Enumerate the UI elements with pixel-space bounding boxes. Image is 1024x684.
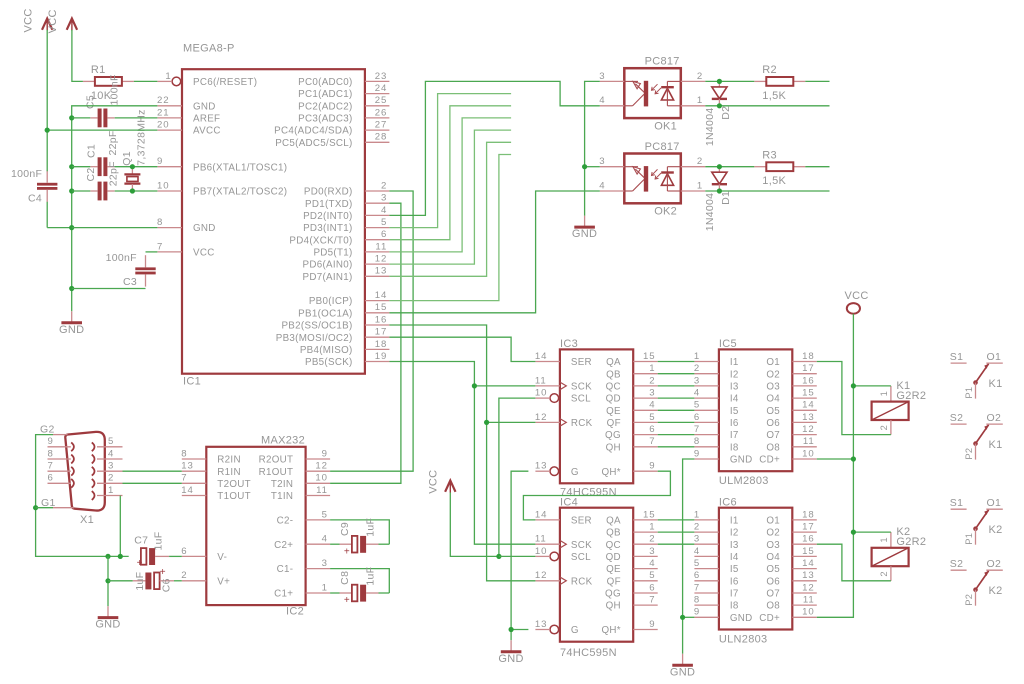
svg-text:SCL: SCL [571,394,591,405]
wire AVCC feed [47,129,157,131]
pin 3 C1- [306,568,331,570]
svg-text:C8: C8 [339,571,351,585]
svg-text:PB2(SS/OC1B): PB2(SS/OC1B) [281,321,352,332]
svg-text:S2: S2 [950,412,963,424]
svg-text:4: 4 [108,448,114,459]
svg-text:14: 14 [535,351,547,362]
svg-text:2: 2 [694,363,700,374]
svg-text:K2: K2 [989,524,1003,536]
svg-text:G: G [571,467,579,478]
svg-text:10: 10 [315,473,327,484]
wire shield rail G2/G1 to V- [36,435,129,557]
svg-text:5: 5 [649,412,655,423]
pin 1 QB [633,531,658,533]
svg-text:2: 2 [181,570,187,581]
pin 13 G [550,625,559,634]
svg-text:QE: QE [606,406,621,417]
svg-text:SCL: SCL [571,552,591,563]
svg-text:I6: I6 [730,576,739,587]
svg-text:R1IN: R1IN [217,467,241,478]
svg-text:PB3(MOSI/OC2): PB3(MOSI/OC2) [276,333,353,344]
pin 11 O8 [792,604,817,606]
svg-text:OK2: OK2 [654,206,677,218]
wire IC3 output row 7 to IC5 [658,434,695,436]
pin 1 I1 [694,361,719,363]
svg-text:GND: GND [59,324,84,336]
wire IC4 output row 2 to IC6 [658,531,695,533]
wire IC3 output row 8 to IC5 [658,446,695,448]
pin 5 QF [633,421,658,423]
svg-text:O1: O1 [987,497,1002,509]
VCC symbol top-left 2 [47,9,77,33]
svg-text:K1: K1 [989,439,1003,451]
svg-text:C2: C2 [85,167,97,181]
svg-text:IC1: IC1 [183,376,201,388]
ground symbol below IC6 [682,654,684,665]
svg-text:AVCC: AVCC [193,126,221,137]
wire PB5 SCK net [389,362,535,545]
svg-text:10: 10 [535,546,547,557]
svg-text:7: 7 [649,436,655,447]
wire SCK branch to IC3 [474,385,535,387]
pin 1 C1+ [306,592,331,594]
relay contact K2 pole P1 [950,497,1003,545]
svg-text:I4: I4 [730,394,739,405]
pin 2 QC [633,543,658,545]
pin 18 O1 [792,519,817,521]
capacitor (28, 201.5, 'C4') [11,168,57,205]
wire RCK branch to IC3 [487,421,536,423]
relay contact K1 pole P1 [950,351,1003,399]
svg-text:PC2(ADC2): PC2(ADC2) [298,101,352,112]
pin 22 GND [158,105,183,107]
svg-text:SER: SER [571,516,592,527]
svg-text:MAX232: MAX232 [261,435,305,447]
svg-text:13: 13 [802,412,814,423]
pin 6 I6 [694,580,719,582]
pin 4 I4 [694,555,719,557]
svg-text:9: 9 [157,156,163,167]
pin 6 V- [182,555,207,557]
capacitor C7 1uF [134,532,182,570]
pin 11 SCK [535,385,560,387]
svg-text:2: 2 [649,375,655,386]
ground symbol left rail [71,311,73,322]
svg-text:QA: QA [606,516,621,527]
svg-text:22pF: 22pF [107,130,119,155]
pin 14 SER [535,361,560,363]
svg-text:PD3(INT1): PD3(INT1) [303,223,353,234]
svg-text:13: 13 [802,570,814,581]
pin 1 QB [633,373,658,375]
wire PD0 to MAX232 R1OUT [330,191,413,471]
svg-text:5: 5 [649,570,655,581]
pin 12 RCK [535,580,560,582]
node D2 cathode junction [717,103,722,108]
svg-text:9: 9 [322,448,328,459]
svg-text:15: 15 [375,302,387,313]
svg-text:G: G [571,625,579,636]
pin 15 QA [633,519,658,521]
capacitor C6 1uF [108,567,182,592]
svg-text:14: 14 [802,400,814,411]
svg-text:GND: GND [572,228,597,240]
svg-text:OK1: OK1 [654,120,677,132]
svg-text:VCC: VCC [845,290,869,302]
svg-text:3: 3 [108,461,114,472]
wire OK1 output row bottom [705,105,829,107]
svg-text:T1IN: T1IN [271,491,293,502]
svg-text:1uF: 1uF [365,567,377,586]
pin 10 T2IN [306,482,331,484]
svg-text:C1-: C1- [277,564,294,575]
svg-text:CD+: CD+ [759,455,780,466]
svg-text:AREF: AREF [193,114,220,125]
svg-text:G2R2: G2R2 [896,390,926,402]
svg-text:QH*: QH* [601,467,620,478]
pin 12 PD6(AIN0) [365,263,390,265]
pin 24 PC1(ADC1) [365,93,390,95]
wire X1 pin2 to T2OUT [123,482,182,484]
wire VCC rail right [817,314,854,618]
svg-text:3: 3 [381,193,387,204]
wire SCL to IC4 [499,555,536,557]
svg-text:22: 22 [157,95,169,106]
svg-text:R1OUT: R1OUT [259,467,294,478]
svg-text:QH: QH [606,601,621,612]
svg-text:V-: V- [217,552,227,563]
svg-text:K1: K1 [989,378,1003,390]
svg-text:I2: I2 [730,369,739,380]
svg-text:R2IN: R2IN [217,455,241,466]
svg-text:3: 3 [649,388,655,399]
pin 13 O6 [792,580,817,582]
svg-text:C7: C7 [134,535,148,547]
svg-text:15: 15 [802,388,814,399]
relay contact K1 pole P2 [950,412,1003,460]
pin 20 AVCC [158,129,183,131]
svg-text:GND: GND [730,455,753,466]
svg-text:PC6(/RESET): PC6(/RESET) [193,77,257,88]
node SCL junction [496,554,501,559]
svg-text:3: 3 [599,156,605,167]
svg-text:R2: R2 [762,64,777,76]
svg-text:QH*: QH* [601,625,620,636]
pin 7 T2OUT [182,482,207,484]
svg-text:O3: O3 [766,382,780,393]
X1 pin 3 [92,467,95,476]
pin 1 I1 [694,519,719,521]
diode D1 1N4004 [704,167,732,232]
svg-text:D1: D1 [720,191,732,205]
relay contact K2 pole P2 [950,558,1003,606]
pin 16 O3 [792,543,817,545]
svg-text:C2-: C2- [277,516,294,527]
svg-text:C9: C9 [339,522,351,536]
svg-text:O5: O5 [766,564,780,575]
svg-text:PB1(OC1A): PB1(OC1A) [298,308,352,319]
pin 7 QH [633,446,658,448]
svg-text:O4: O4 [766,394,780,405]
svg-text:PC817: PC817 [645,141,680,153]
svg-text:6: 6 [48,473,54,484]
wire VCC2 to R1 [72,30,83,82]
wire IC4 output row 3 to IC6 [658,543,695,545]
svg-text:3: 3 [599,71,605,82]
svg-text:3: 3 [694,375,700,386]
pin 5 PD3(INT1) [365,227,390,229]
VCC symbol top-left 1 [23,8,53,32]
svg-text:5: 5 [108,436,114,447]
pin 14 SER [535,519,560,521]
svg-text:I7: I7 [730,589,739,600]
svg-text:PD4(XCK/T0): PD4(XCK/T0) [289,235,352,246]
pin 1 PC6(/RESET) [172,77,181,86]
svg-text:O3: O3 [766,540,780,551]
svg-text:QF: QF [607,576,621,587]
wire PB3 to IC3 SER [389,337,535,361]
X1 shield pin G2 [53,434,68,436]
pin 9 PB6(XTAL1/TOSC1) [158,166,183,168]
wire IC3 output row 6 to IC5 [658,421,695,423]
svg-text:I8: I8 [730,442,739,453]
svg-text:VCC: VCC [23,8,35,32]
pin 3 I3 [694,543,719,545]
svg-text:PB4(MISO): PB4(MISO) [300,345,353,356]
svg-text:PD2(INT0): PD2(INT0) [303,211,353,222]
svg-text:P1: P1 [964,533,974,545]
svg-text:I4: I4 [730,552,739,563]
pin 4 QE [633,568,658,570]
wire G1 link [36,507,53,509]
svg-text:10: 10 [535,388,547,399]
pin 12 RCK [535,421,560,423]
svg-text:11: 11 [316,485,328,496]
svg-text:PB7(XTAL2/TOSC2): PB7(XTAL2/TOSC2) [193,187,287,198]
IC1 MEGA8-P microcontroller [182,69,365,374]
wire VCC1 rail to AVCC and C4 [46,30,48,171]
capacitor (93.5, 109, 'C5') [85,74,121,127]
svg-text:12: 12 [535,570,547,581]
wire X1 pin1 down to V- row [119,496,121,557]
svg-text:2: 2 [697,71,703,82]
svg-text:8: 8 [694,436,700,447]
svg-text:1: 1 [649,522,655,533]
pin 5 QF [633,580,658,582]
wire PD4 stub net [389,106,511,240]
svg-text:K2: K2 [989,585,1003,597]
svg-text:T1OUT: T1OUT [217,491,251,502]
svg-text:9: 9 [649,619,655,630]
svg-text:4: 4 [599,180,605,191]
svg-text:27: 27 [375,120,387,131]
pin 17 O2 [792,531,817,533]
pin 15 O4 [792,555,817,557]
svg-text:VCC: VCC [193,248,215,259]
pin 25 PC2(ADC2) [365,105,390,107]
svg-text:6: 6 [649,582,655,593]
node D2 anode junction [717,79,722,84]
wire GND branch IC6 [683,616,695,618]
pin 16 PB2(SS/OC1B) [365,324,390,326]
svg-text:19: 19 [375,351,387,362]
svg-text:PC5(ADC5/SCL): PC5(ADC5/SCL) [275,138,352,149]
pin 17 PB3(MOSI/OC2) [365,336,390,338]
resistor R1 10K [83,64,134,102]
svg-text:4: 4 [649,400,655,411]
node D1 anode junction [717,164,722,169]
wire PD6 stub net [389,130,511,264]
svg-text:R3: R3 [762,149,777,161]
wire IC3 output row 2 to IC5 [658,373,695,375]
node G1 junction [33,505,38,510]
svg-text:SCK: SCK [571,382,592,393]
wire K2 coil return to O3 [817,544,891,581]
svg-text:13: 13 [535,619,547,630]
pin 5 I5 [694,409,719,411]
svg-text:IC3: IC3 [560,338,578,350]
svg-text:P2: P2 [964,448,974,460]
IC4 74HC595N shift register [560,508,633,642]
pin 5 C2- [306,519,331,521]
pin 12 R1OUT [306,470,331,472]
X1 shield pin G1 [53,507,74,509]
node K2 VCC junction [851,530,856,535]
svg-text:MEGA8-P: MEGA8-P [183,43,235,55]
pin 4 PD2(INT0) [365,214,390,216]
pin 10 CD+ [792,458,817,460]
svg-text:9: 9 [48,436,54,447]
svg-text:Q1: Q1 [121,151,133,166]
svg-text:I2: I2 [730,528,739,539]
svg-text:V+: V+ [217,576,230,587]
pin 15 QA [633,361,658,363]
svg-text:+: + [137,558,143,569]
svg-text:1: 1 [322,582,328,593]
svg-text:I5: I5 [730,406,739,417]
svg-text:2: 2 [108,473,114,484]
svg-text:17: 17 [802,363,814,374]
ground symbol below IC4 [510,640,512,651]
svg-text:1: 1 [108,485,114,496]
svg-text:T2IN: T2IN [271,479,293,490]
svg-text:I3: I3 [730,540,739,551]
pin 14 PB0(ICP) [365,300,390,302]
pin 13 O6 [792,421,817,423]
svg-text:QD: QD [606,394,621,405]
svg-text:20: 20 [157,120,169,131]
pin 7 VCC [158,251,183,253]
svg-text:12: 12 [535,412,547,423]
svg-text:1uF: 1uF [152,532,164,551]
wire G branch IC4 [511,629,528,631]
svg-text:PB0(ICP): PB0(ICP) [309,296,353,307]
svg-text:4: 4 [694,388,700,399]
svg-text:QD: QD [606,552,621,563]
relay K1 G2R2 coil [872,380,927,435]
svg-text:5: 5 [381,217,387,228]
VCC symbol near IC3/IC4 SCL [427,470,455,494]
svg-text:28: 28 [375,132,387,143]
svg-text:O6: O6 [766,576,780,587]
wire OK2 output row bottom [705,190,829,192]
pin 8 I8 [694,604,719,606]
node D1 cathode junction [717,188,722,193]
pin 2 QC [633,385,658,387]
svg-text:21: 21 [157,107,169,118]
pin 16 O3 [792,385,817,387]
svg-text:VCC: VCC [47,9,59,33]
svg-text:P2: P2 [964,594,974,606]
pin 14 O5 [792,409,817,411]
ground symbol below optocouplers [584,216,586,227]
pin 9 R2OUT [306,458,331,460]
svg-text:PC3(ADC3): PC3(ADC3) [298,114,352,125]
svg-text:+: + [344,546,350,557]
pin 5 I5 [694,568,719,570]
svg-text:7: 7 [694,424,700,435]
wire AREF - C5 [72,117,91,119]
svg-text:O2: O2 [766,369,780,380]
pin 6 PD4(XCK/T0) [365,239,390,241]
svg-text:GND: GND [193,223,216,234]
pin 4 C2+ [306,543,331,545]
svg-text:IC4: IC4 [560,497,578,509]
pin 3 QD [633,555,658,557]
svg-text:10: 10 [802,448,814,459]
svg-text:C2+: C2+ [274,540,293,551]
wire VCC pin7 to C3 [146,251,158,253]
svg-text:8: 8 [157,217,163,228]
wire IC3 output row 1 to IC5 [658,361,695,363]
node RCK junction [484,420,489,425]
svg-text:13: 13 [181,461,193,472]
svg-text:4: 4 [599,95,605,106]
svg-text:4: 4 [381,205,387,216]
wire K2 coil feed [853,531,891,533]
svg-text:R1: R1 [91,64,106,76]
svg-text:I5: I5 [730,564,739,575]
svg-text:8: 8 [181,448,187,459]
pin 2 I2 [694,373,719,375]
svg-text:QC: QC [606,382,621,393]
svg-text:1: 1 [879,537,889,542]
pin 17 O2 [792,373,817,375]
node CD+ junction [851,456,856,461]
svg-text:QA: QA [606,357,621,368]
pin 19 PB5(SCK) [365,361,390,363]
svg-text:O2: O2 [766,528,780,539]
svg-text:3: 3 [649,546,655,557]
svg-text:5: 5 [694,400,700,411]
svg-text:GND: GND [498,653,523,665]
svg-text:S1: S1 [950,497,963,509]
wire OK1 pin3 / OK2 pin3 to ground [585,81,600,215]
wire IC5 GND / IC6 GND rail [683,459,695,654]
node GND rail junctions [69,115,74,120]
wire PB7 - C2 - Q1 [72,190,91,192]
svg-text:PD0(RXD): PD0(RXD) [304,187,353,198]
svg-text:GND: GND [730,613,753,624]
svg-text:O1: O1 [766,516,780,527]
svg-text:10: 10 [157,180,169,191]
svg-text:I7: I7 [730,430,739,441]
pin 11 PD5(T1) [365,251,390,253]
pin 4 I4 [694,397,719,399]
svg-text:PC4(ADC4/SDA): PC4(ADC4/SDA) [274,126,352,137]
wire OK2 pin3 stub link [585,166,600,168]
svg-text:8: 8 [48,448,54,459]
